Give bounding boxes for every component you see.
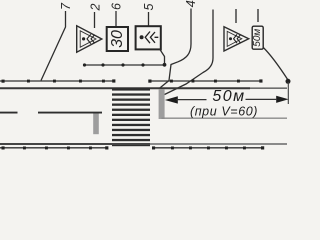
svg-text:(при V=60): (при V=60)	[190, 104, 258, 118]
svg-text:50м: 50м	[252, 29, 263, 47]
distance plate 50m (8.1.1)	[252, 26, 263, 49]
node 7 (callout digit, rotated)	[59, 2, 73, 10]
wire leader from 2 to triangle sign	[94, 12, 96, 28]
wire vertical from dot to dimension line	[287, 82, 289, 104]
node 4 (callout digit, rotated)	[183, 0, 198, 7]
fence line top-left with posts	[0, 79, 115, 82]
road bottom edge	[0, 143, 150, 145]
warning triangle sign 1.22 (left)	[77, 26, 102, 52]
wire leader from 5 to 5.19 sign	[148, 12, 150, 26]
dimension arrow left	[165, 96, 178, 103]
node 5 (callout digit, rotated)	[142, 3, 156, 10]
upper dotted service line with post dots	[83, 63, 165, 66]
centre line dash 1	[0, 112, 18, 114]
fence line bottom-right with posts	[152, 146, 264, 149]
node 6 (callout digit, rotated)	[110, 3, 124, 10]
wire leader from 6 to 30 sign	[115, 11, 117, 27]
wire leader from 7 to fence line	[41, 11, 66, 81]
node 2 (callout digit, rotated)	[89, 3, 103, 11]
wire leader from 4 to stop bar	[160, 9, 192, 89]
node junction dot at 5.19 sign position	[163, 63, 167, 67]
wire leader (bare) down to dimension arrow	[165, 10, 214, 95]
stop bar (left, before crossing)	[93, 113, 99, 134]
speed sign 30 (square)	[107, 27, 128, 51]
fence line top-right with posts	[148, 79, 262, 82]
svg-text:4: 4	[183, 0, 198, 7]
warning triangle sign 1.22 (right)	[224, 27, 249, 51]
wire stub above right triangle sign	[235, 9, 237, 23]
zebra crossing marking 1.14.1	[112, 88, 150, 146]
road top edge	[0, 87, 250, 89]
pedestrian crossing sign 5.19 (square)	[136, 26, 161, 49]
centre line right of crossing	[162, 117, 288, 119]
dimension line	[176, 99, 207, 101]
fence line bottom-left with posts	[0, 146, 108, 149]
svg-text:50м: 50м	[212, 88, 245, 105]
stop bar (right, before crossing)	[159, 89, 165, 119]
centre line dash 2	[38, 112, 102, 114]
svg-text:5: 5	[142, 3, 156, 10]
wire leader from 5.19 sign down to junction dot	[160, 49, 165, 65]
svg-text:30: 30	[109, 30, 126, 48]
dimension arrow right	[276, 96, 288, 103]
node: 50m sign position dot on road edge	[286, 79, 291, 84]
svg-text:6: 6	[110, 3, 124, 10]
svg-text:7: 7	[59, 2, 73, 10]
wire stub above 50m plate	[257, 9, 259, 22]
svg-text:2: 2	[89, 3, 103, 11]
wire leader from 50m plate to road edge dot	[263, 48, 288, 81]
